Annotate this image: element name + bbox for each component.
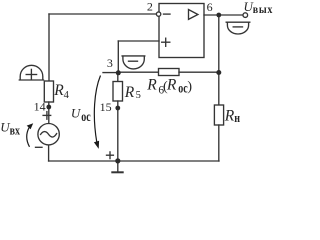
svg-text:R: R (224, 107, 235, 124)
arrow U_vx (27, 126, 30, 147)
node 14 junction dot (46, 105, 51, 110)
svg-text:н: н (234, 111, 240, 126)
op-amp triangle symbol (189, 10, 198, 20)
node bottom-ground junction dot (115, 158, 120, 163)
op-amp U1 body (159, 4, 204, 58)
wire node3 stub left (103, 72, 118, 74)
svg-text:вых: вых (253, 5, 273, 17)
node 15 junction dot (115, 106, 120, 111)
op-amp non-inverting plus sign (162, 41, 170, 43)
resistor Rn (214, 105, 223, 125)
svg-text:U: U (71, 105, 82, 120)
wire node3 to R6 (118, 71, 158, 73)
svg-text:ос: ос (81, 108, 91, 124)
wire node3 down to R5 (117, 73, 119, 82)
svg-text:3: 3 (107, 56, 113, 70)
svg-text:ос: ос (178, 81, 187, 96)
terminal U_vyx open circle (243, 13, 248, 18)
wire left vertical down to R4 (48, 14, 50, 81)
svg-text:15: 15 (100, 100, 112, 114)
socket bowl minus (output) (226, 22, 250, 34)
resistor R6 (159, 69, 180, 76)
ground (117, 161, 119, 172)
node R6-right junction dot (216, 70, 221, 75)
op-amp pin 2 open circle (156, 12, 160, 16)
wire source bottom down (48, 145, 50, 161)
wire right vertical: output junction down to Rn (218, 15, 220, 105)
svg-text:R: R (124, 84, 135, 101)
svg-text:4: 4 (64, 90, 70, 101)
source U_vx circle (38, 124, 59, 145)
svg-text:5: 5 (136, 90, 141, 101)
source sine wave (41, 132, 57, 137)
source minus polarity (36, 146, 43, 148)
wire R6 to right vertical (179, 71, 219, 73)
op-amp inverting input minus sign (164, 13, 171, 15)
svg-text:6: 6 (207, 0, 213, 14)
svg-text:вх: вх (10, 125, 21, 138)
wire op-amp output to terminal (204, 14, 243, 16)
wire top from left branch to op-amp pin 2 (49, 13, 156, 15)
resistor R4 (44, 81, 53, 102)
wire plus-input horizontal into op-amp (118, 40, 159, 42)
source plus polarity (43, 114, 51, 116)
plus label near ground (107, 154, 114, 156)
socket dome plus (left) (19, 65, 43, 80)
wire bottom rail (49, 160, 219, 162)
node 6 output junction dot (216, 13, 221, 18)
wire node3 up to plus-input corner (117, 41, 119, 73)
svg-text:R: R (166, 76, 177, 93)
wire R5 to bottom rail (117, 101, 119, 161)
wire Rn to bottom rail (218, 125, 220, 161)
wire R4 to source (48, 102, 50, 124)
svg-text:): ) (187, 80, 192, 95)
node 3 junction dot (116, 70, 121, 75)
resistor R5 (113, 82, 123, 102)
svg-text:R: R (146, 76, 157, 93)
socket bowl minus (mid) (122, 56, 145, 69)
arrow U_oc (94, 76, 100, 144)
svg-text:14: 14 (34, 99, 46, 113)
svg-text:2: 2 (147, 0, 153, 14)
